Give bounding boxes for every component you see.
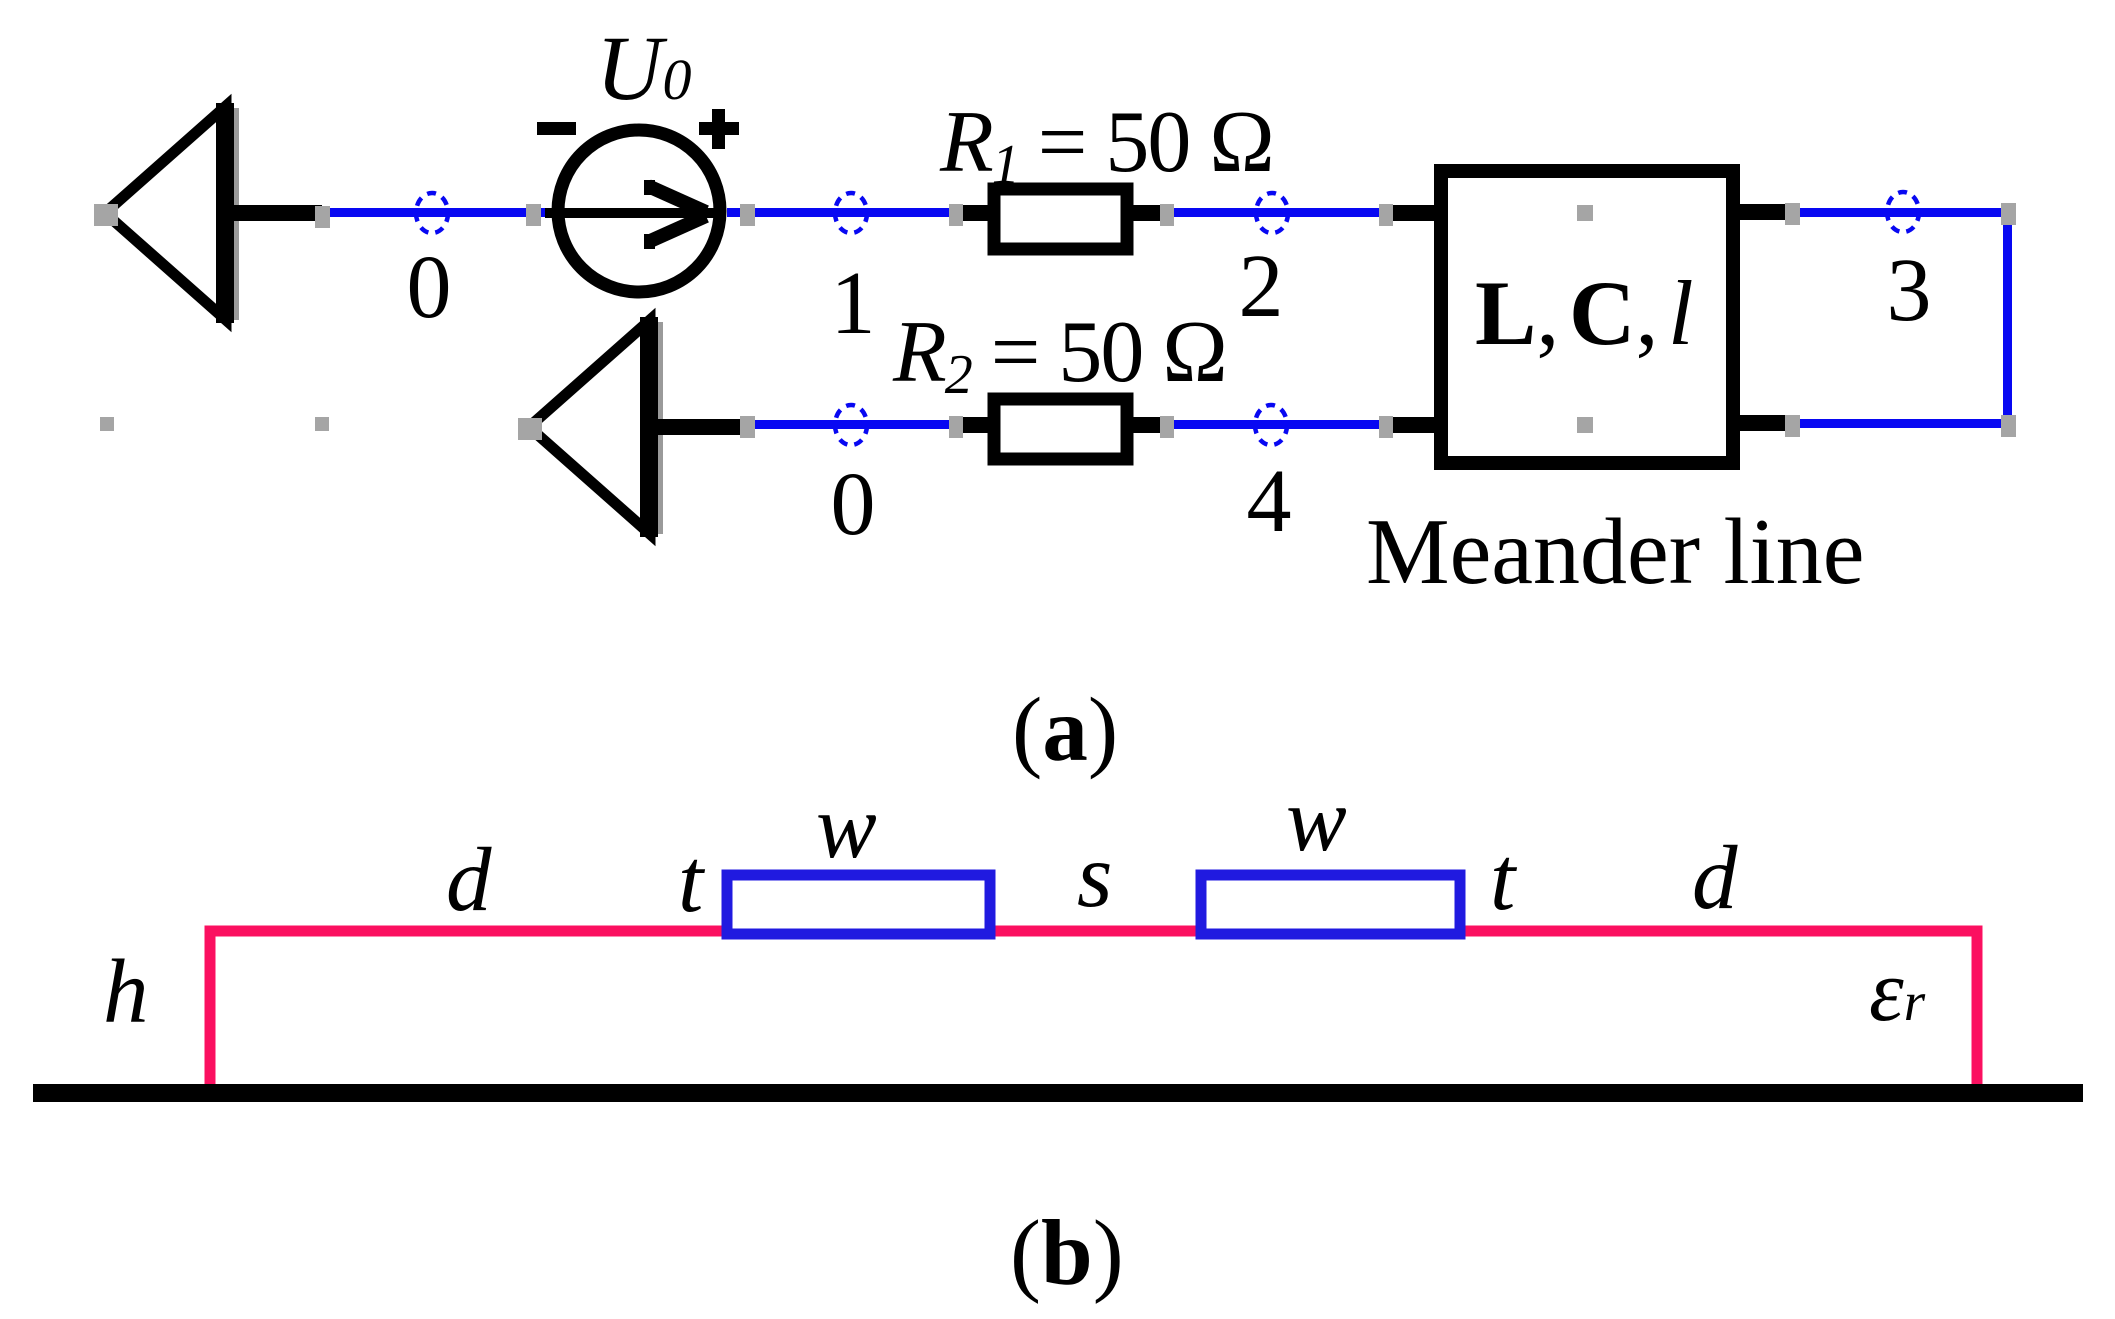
svg-text:0: 0 bbox=[831, 455, 876, 554]
svg-text:d: d bbox=[1692, 827, 1738, 928]
svg-text:w: w bbox=[1286, 769, 1347, 870]
svg-text:L,: L, bbox=[1475, 262, 1559, 364]
svg-text:C,: C, bbox=[1569, 262, 1658, 364]
svg-text:(b): (b) bbox=[1010, 1202, 1124, 1305]
svg-text:4: 4 bbox=[1247, 452, 1292, 551]
svg-text:(a): (a) bbox=[1012, 679, 1118, 780]
svg-text:t: t bbox=[1490, 828, 1518, 929]
svg-text:s: s bbox=[1077, 825, 1112, 926]
svg-text:l: l bbox=[1668, 262, 1694, 364]
svg-text:2: 2 bbox=[1239, 237, 1284, 336]
svg-text:w: w bbox=[816, 776, 877, 877]
svg-text:Meander line: Meander line bbox=[1366, 500, 1865, 604]
svg-text:R2 = 50 Ω: R2 = 50 Ω bbox=[892, 304, 1226, 406]
svg-text:h: h bbox=[103, 941, 149, 1042]
svg-text:0: 0 bbox=[407, 238, 452, 337]
svg-text:3: 3 bbox=[1887, 241, 1932, 340]
svg-text:d: d bbox=[446, 829, 492, 930]
svg-text:1: 1 bbox=[831, 254, 876, 353]
svg-text:t: t bbox=[678, 830, 706, 931]
svg-text:R1 = 50 Ω: R1 = 50 Ω bbox=[939, 94, 1273, 196]
